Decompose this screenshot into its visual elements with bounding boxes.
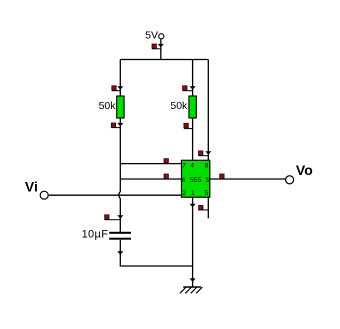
- current arrow above C1: [117, 215, 123, 219]
- svg-text:6: 6: [182, 177, 186, 184]
- svg-text:10µF: 10µF: [82, 229, 109, 241]
- svg-text:50k: 50k: [170, 100, 188, 112]
- wire pin6 horizontal: [120, 178, 181, 180]
- current arrow below C1: [117, 251, 123, 255]
- wire rail right drop to IC pin8: [207, 60, 209, 161]
- wire pin1 vertical IC to ground: [192, 197, 194, 287]
- wire 5V stub: [160, 39, 162, 59]
- capacitor C1 10uF: [82, 229, 131, 241]
- wire pin5 stub: [207, 197, 209, 218]
- pin marker on pin7 wire: [164, 159, 168, 163]
- wire pin7 horizontal: [120, 163, 181, 165]
- pin marker above R2: [183, 86, 193, 91]
- svg-text:4: 4: [190, 162, 194, 169]
- wire R2 bottom to IC pin4: [192, 118, 194, 160]
- pin marker at 5V node: [152, 44, 161, 49]
- svg-text:Vi: Vi: [25, 179, 38, 195]
- wire Vi to pin2: [49, 194, 182, 196]
- wire top rail: [120, 59, 208, 61]
- wire below capacitor to corner: [119, 240, 121, 266]
- svg-text:5: 5: [205, 190, 209, 197]
- wire bottom horizontal: [120, 265, 193, 267]
- pin marker on pin5 stub: [199, 205, 209, 210]
- output terminal Vo: [286, 162, 313, 184]
- current arrow below R1: [117, 123, 123, 127]
- pin marker below R2: [184, 123, 193, 128]
- pin marker above R1: [112, 86, 121, 91]
- wire left drop from rail to R1: [119, 60, 121, 97]
- svg-text:50k: 50k: [99, 100, 117, 112]
- svg-text:1: 1: [191, 190, 195, 197]
- svg-text:2: 2: [182, 190, 186, 197]
- svg-text:8: 8: [205, 162, 209, 169]
- power terminal 5V: [145, 30, 164, 42]
- wire hop over Vi line: [119, 192, 120, 198]
- pin marker on pin8 wire: [199, 151, 209, 156]
- svg-text:555: 555: [190, 177, 202, 184]
- svg-text:3: 3: [205, 177, 209, 184]
- current arrow on 5V stub: [158, 44, 164, 48]
- op-amp timer U1 555 body: [182, 160, 210, 197]
- wire left vertical R1 bottom to hop: [119, 118, 121, 192]
- input terminal Vi: [25, 179, 48, 200]
- pin marker above C1: [105, 215, 121, 220]
- current arrow above R2: [190, 86, 196, 90]
- ground symbol: [180, 287, 203, 293]
- wire left vertical hop to capacitor: [119, 198, 121, 232]
- resistor R2 50k body: [170, 96, 196, 118]
- svg-text:5V: 5V: [145, 30, 158, 42]
- wire pin3 to Vo: [210, 178, 285, 180]
- pin marker below R1: [111, 123, 120, 128]
- resistor R1 50k body: [99, 96, 125, 118]
- current arrow above ground: [190, 278, 196, 282]
- pin marker on pin3 wire: [220, 174, 224, 178]
- svg-text:7: 7: [182, 162, 186, 169]
- current arrow below IC pin1: [190, 204, 196, 208]
- pin marker on pin6 wire: [164, 174, 168, 178]
- current arrow above R1: [117, 86, 123, 90]
- wire right drop rail to R2: [192, 60, 194, 97]
- current arrow on pin8 wire: [205, 151, 211, 155]
- svg-text:Vo: Vo: [296, 162, 313, 178]
